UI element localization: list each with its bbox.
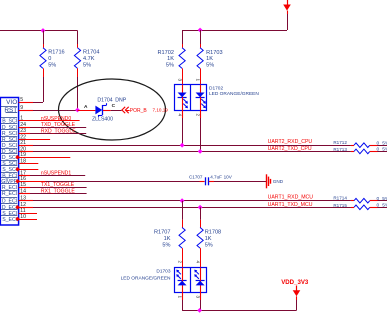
svg-text:UART2_RXD_CPU: UART2_RXD_CPU — [268, 139, 313, 145]
svg-text:5%: 5% — [382, 147, 387, 153]
svg-text:VIO: VIO — [6, 99, 17, 106]
pin 12 (D_ECI) of U1 — [1, 202, 26, 211]
pin 14 (R_ECI) of U1 — [1, 188, 26, 197]
svg-text:C: C — [112, 103, 116, 109]
svg-text:UART1_RXD_MCU: UART1_RXD_MCU — [268, 195, 314, 201]
svg-text:D_SCI: D_SCI — [2, 125, 17, 131]
net nSUSPEND0 (pin 1) — [19, 116, 80, 122]
wire top-left power rail — [0, 30, 78, 32]
LED legs below D1702 — [183, 118, 201, 151]
pin 20 (D_SCI) of U1 — [1, 146, 26, 155]
svg-text:5%: 5% — [166, 63, 174, 69]
wire power to rail — [182, 14, 287, 31]
svg-text:R1703: R1703 — [206, 50, 222, 56]
svg-text:R1712: R1712 — [333, 140, 347, 145]
net TX1_TOGGLE (pin 15) — [19, 182, 87, 188]
svg-text:R1702: R1702 — [158, 50, 174, 56]
underline below RST pin name — [6, 112, 18, 114]
pin junction dot (pin 16) — [15, 179, 20, 184]
junction D1702 right leg / UART2_TXD — [198, 149, 203, 154]
junction at R1716 top — [41, 28, 46, 33]
svg-text:7,10,19: 7,10,19 — [153, 107, 169, 112]
pin 5 (VIO) of U1 — [6, 97, 23, 106]
svg-text:TX1_TOGGLE: TX1_TOGGLE — [41, 182, 75, 188]
wire D1704 cathode to POR_B — [103, 110, 122, 112]
svg-text:2: 2 — [195, 114, 200, 117]
pin x (S_SCI) of U1 — [1, 166, 17, 174]
wire C1707 to GND — [214, 181, 266, 183]
node A junction — [75, 104, 88, 112]
junction D1702 left leg / UART2_RXD — [180, 143, 185, 148]
pin 23 (R_SCI) of U1 — [1, 128, 26, 137]
svg-text:0: 0 — [377, 203, 380, 209]
wire UART1_TXD_MCU (pin 12 row) — [19, 207, 351, 209]
resistor R1714 — [333, 196, 387, 203]
svg-text:10V: 10V — [224, 175, 233, 180]
junction D1703 left leg / UART1_RXD — [180, 198, 185, 203]
pin junction dot (pin 12) — [15, 205, 20, 210]
svg-text:R1715: R1715 — [333, 203, 347, 208]
LED D1703 (dual LED orange/green) — [175, 268, 207, 301]
svg-text:R1707: R1707 — [154, 230, 170, 236]
wire node A to D1704 anode — [78, 110, 96, 112]
pin 11 (S_ECI) of U1 — [1, 208, 26, 217]
pin 19 (D_SCI) of U1 — [1, 152, 26, 161]
svg-text:LED ORANGE/GREEN: LED ORANGE/GREEN — [121, 275, 171, 281]
svg-text:nSUSPEND1: nSUSPEND1 — [41, 171, 71, 177]
pin 21 (D_SCI) of U1 — [1, 140, 26, 149]
svg-text:5%: 5% — [83, 62, 91, 68]
svg-text:DNP: DNP — [115, 97, 126, 103]
net nSUSPEND1 (pin 17) — [19, 171, 86, 177]
pin junction dot (pin 19) — [15, 155, 20, 160]
pin 24 (D_SCI) of U1 — [1, 122, 26, 131]
svg-text:5%: 5% — [205, 242, 213, 248]
resistor R1708 — [197, 207, 221, 267]
label D1703 — [121, 269, 171, 282]
junction at R1703 top — [198, 28, 203, 33]
svg-text:0: 0 — [377, 196, 380, 202]
pin 1 (B_SCI) of U1 — [1, 116, 23, 125]
pin 15 (R_ECI) of U1 — [1, 182, 26, 191]
svg-text:RST: RST — [4, 107, 17, 114]
wire R1704 bottom to node A — [77, 77, 79, 110]
svg-text:R1704: R1704 — [83, 50, 99, 56]
svg-text:3: 3 — [195, 296, 200, 299]
pin 13 (D_ECI) of U1 — [1, 196, 26, 205]
svg-text:1K: 1K — [205, 236, 212, 242]
svg-text:GND: GND — [273, 179, 284, 184]
pin 9 (RST) of U1 — [1, 105, 23, 114]
net stub pin 22 — [19, 139, 50, 141]
resistor R1712 — [333, 140, 387, 147]
svg-text:A: A — [84, 104, 88, 110]
pin junction dot (unnumbered S_SCI pin) — [15, 167, 20, 172]
power symbol (top right, down arrow) — [283, 0, 291, 14]
svg-text:R_ECI: R_ECI — [2, 185, 17, 191]
IC U1 (microcontroller, partially off-canvas at left) — [0, 98, 19, 226]
wire R1716 bottom to VIO pin — [19, 77, 44, 103]
svg-text:5%: 5% — [162, 242, 170, 248]
svg-text:4: 4 — [177, 114, 182, 117]
wire UART1_RXD_MCU (pin 13 row) — [19, 200, 351, 202]
svg-text:1K: 1K — [167, 56, 174, 62]
power symbol VDD_3V3 — [281, 279, 309, 310]
net TXD_TOGGLE (pin 24) — [19, 122, 87, 128]
svg-text:D1704: D1704 — [97, 97, 112, 103]
svg-text:5%: 5% — [48, 62, 56, 68]
svg-text:R1714: R1714 — [333, 196, 347, 201]
wire UART2_TXD_CPU (pin 20 row) — [19, 151, 351, 153]
svg-text:nSUSPEND0: nSUSPEND0 — [41, 116, 71, 122]
net RX1_TOGGLE (pin 14) — [19, 189, 87, 195]
net stub pin 11 — [19, 213, 37, 215]
resistor R1703 — [197, 30, 223, 85]
svg-text:3: 3 — [177, 79, 182, 82]
highlight ellipse around D1704 — [59, 79, 166, 140]
diode D1704 (schottky, DNP) — [92, 97, 127, 122]
pin 16 (GIVPP) of U1 — [1, 176, 26, 185]
svg-text:4.7uF: 4.7uF — [210, 175, 222, 180]
svg-text:LED ORANGE/GREEN: LED ORANGE/GREEN — [209, 91, 259, 97]
label D1702 — [209, 86, 259, 98]
svg-text:UART1_TXD_MCU: UART1_TXD_MCU — [268, 202, 313, 208]
svg-text:4.7K: 4.7K — [83, 56, 95, 62]
resistor R1715 — [333, 203, 387, 210]
ground symbol GND — [267, 174, 284, 188]
svg-text:1K: 1K — [206, 56, 213, 62]
svg-text:5%: 5% — [382, 140, 387, 146]
pin 18 (S_SCI) of U1 — [1, 158, 26, 167]
off-page connector POR_B — [122, 107, 148, 114]
svg-text:C1707: C1707 — [189, 175, 203, 180]
pin junction dot (pin 10) — [15, 217, 20, 222]
IC left clipped border — [0, 98, 2, 226]
svg-text:1: 1 — [195, 79, 200, 82]
resistor R1716 — [40, 31, 65, 78]
wire pin 16 to C1707 — [19, 181, 200, 183]
svg-text:R1708: R1708 — [205, 230, 221, 236]
junction D1703 right leg / bottom rail — [197, 308, 202, 313]
svg-text:UART2_TXD_CPU: UART2_TXD_CPU — [268, 146, 312, 152]
net stub pin 19 — [19, 157, 71, 159]
net stub pin 10 — [19, 219, 37, 221]
resistor R1704 — [74, 31, 99, 78]
svg-text:D1702: D1702 — [209, 86, 223, 92]
net RXD_TOGGLE (pin 23) — [19, 128, 87, 134]
wire UART2_RXD_CPU (pin 21 row) — [19, 145, 351, 147]
resistor R1702 — [158, 30, 186, 85]
svg-text:0: 0 — [48, 56, 51, 62]
svg-text:D1703: D1703 — [156, 269, 170, 275]
svg-text:RXD_TOGGLE: RXD_TOGGLE — [41, 128, 76, 134]
svg-text:R_ECI: R_ECI — [2, 191, 17, 197]
svg-text:2: 2 — [177, 261, 182, 264]
svg-text:1: 1 — [177, 296, 182, 299]
svg-text:5%: 5% — [206, 63, 214, 69]
capacitor C1707 — [189, 175, 233, 186]
svg-text:4: 4 — [195, 261, 200, 264]
svg-text:TXD_TOGGLE: TXD_TOGGLE — [41, 122, 76, 128]
LED D1702 (dual LED orange/green) — [175, 85, 207, 119]
svg-text:VDD_3V3: VDD_3V3 — [281, 279, 309, 286]
LED legs around D1703 — [183, 300, 201, 310]
svg-text:R1713: R1713 — [333, 147, 347, 152]
svg-text:RX1_TOGGLE: RX1_TOGGLE — [41, 189, 75, 195]
svg-text:R1716: R1716 — [48, 50, 64, 56]
svg-text:POR_B: POR_B — [130, 108, 148, 114]
net stub pin 18 — [19, 163, 39, 165]
svg-text:0: 0 — [377, 147, 380, 153]
resistor R1713 — [333, 147, 387, 154]
pin 10 (S_ECI) of U1 — [1, 214, 26, 223]
svg-text:ZLLS400: ZLLS400 — [92, 117, 113, 123]
net stub unnumbered pin — [19, 169, 39, 171]
svg-text:1K: 1K — [164, 236, 171, 242]
svg-text:S_ECI: S_ECI — [2, 217, 17, 223]
svg-text:0: 0 — [377, 140, 380, 146]
wire RST pin to node A — [19, 110, 78, 112]
wire bottom rail to VDD_3V3 — [182, 310, 296, 312]
svg-text:5%: 5% — [382, 196, 387, 202]
resistor R1707 — [154, 201, 185, 268]
junction D1703 right leg / UART1_TXD — [198, 205, 203, 210]
svg-text:5%: 5% — [382, 203, 387, 209]
pin 17 (B_ECI) of U1 — [1, 170, 26, 179]
pin 22 (R_SCI) of U1 — [1, 134, 26, 143]
